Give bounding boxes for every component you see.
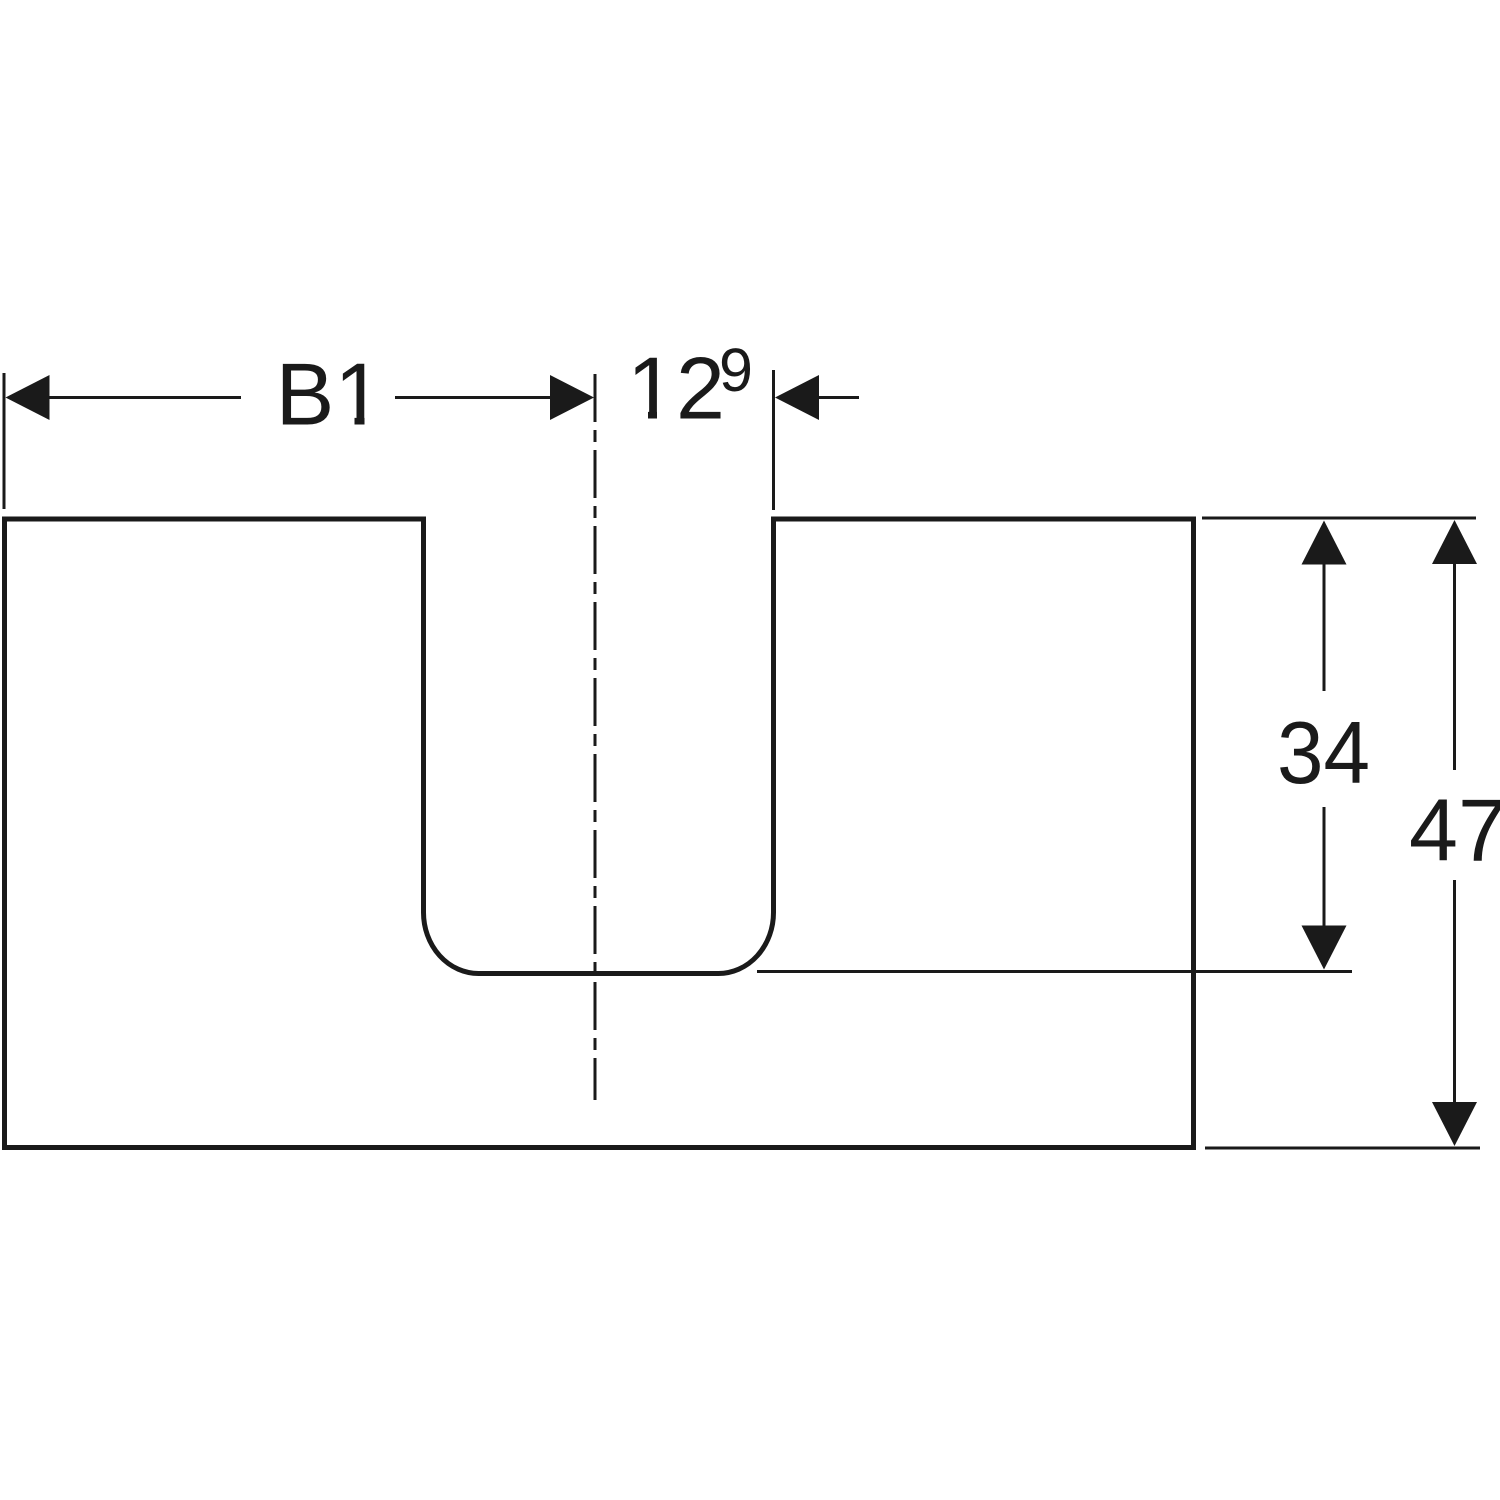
svg-text:12: 12	[627, 339, 725, 438]
dimension line 47 lower segment	[1453, 880, 1456, 1104]
dimension line 47 upper segment	[1453, 562, 1456, 770]
arrowhead B1 left	[6, 375, 50, 420]
extension line top right (34/47)	[1202, 517, 1476, 520]
extension line cutout depth (34)	[757, 970, 1352, 973]
dimension line B1 right segment	[395, 396, 551, 399]
dimension line 34 lower segment	[1323, 807, 1326, 928]
extension line bottom right (47)	[1205, 1147, 1480, 1150]
centerline (dash-dot)	[594, 374, 597, 1100]
extension line left (B1)	[3, 373, 6, 509]
arrowhead 47 down	[1432, 1102, 1477, 1146]
svg-text:9: 9	[719, 336, 753, 404]
extension line right of cutout (12)	[772, 370, 775, 510]
svg-text:47: 47	[1409, 781, 1500, 880]
worktop outline with U-shaped cutout	[5, 519, 1194, 1148]
arrowhead 47 up	[1432, 520, 1477, 564]
dimension line 34 upper segment	[1323, 562, 1326, 691]
svg-text:34: 34	[1277, 703, 1370, 802]
arrowhead 34 up	[1302, 521, 1347, 565]
arrowhead 34 down	[1302, 926, 1347, 970]
svg-text:B1: B1	[276, 345, 384, 444]
dimension line B1 left segment	[49, 396, 241, 399]
arrowhead 12 (points left at extension line)	[775, 375, 819, 420]
arrowhead B1 right	[550, 375, 594, 420]
dimension line 12 tail	[819, 396, 859, 399]
